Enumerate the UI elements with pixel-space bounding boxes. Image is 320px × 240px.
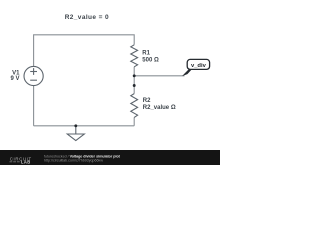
wire: node to v_div tag	[134, 75, 184, 77]
label V1	[12, 70, 20, 76]
wire: bottom rail	[34, 125, 135, 127]
value 500 Ω	[142, 57, 159, 63]
label R2	[143, 98, 151, 104]
wire: V1 bottom	[33, 86, 35, 126]
svg-text:500 Ω: 500 Ω	[142, 57, 159, 63]
annotation R2_value = 0	[65, 14, 109, 21]
svg-text:9 V: 9 V	[10, 76, 19, 82]
svg-text:R2: R2	[143, 98, 151, 104]
node tag v_div tail	[182, 69, 192, 76]
svg-text:LAB: LAB	[21, 159, 31, 164]
svg-text:R2_value Ω: R2_value Ω	[143, 105, 176, 111]
wire: R2 bottom lead	[133, 117, 135, 125]
svg-text:http://circuitlab.com/c/7hb93y: http://circuitlab.com/c/7hb93yqp66kw	[44, 158, 103, 162]
footer title line	[44, 155, 121, 159]
footer url line	[44, 158, 103, 162]
junction: R2 top	[133, 84, 136, 87]
ground	[67, 126, 84, 141]
junction: ground	[74, 124, 77, 127]
resistor R2	[131, 94, 138, 118]
junction: v_div node	[133, 74, 136, 77]
svg-text:R1: R1	[142, 51, 150, 57]
value 9 V	[10, 76, 19, 82]
svg-text:R2_value = 0: R2_value = 0	[65, 14, 109, 21]
wire: V1 top to R1 top	[34, 35, 135, 67]
footer bar	[0, 150, 220, 165]
value R2_value Ω	[143, 105, 176, 111]
resistor R1	[131, 45, 138, 67]
wire: R1 bottom to R2 top	[133, 67, 135, 94]
svg-text:v_div: v_div	[191, 63, 207, 69]
node tag v_div box	[187, 59, 209, 69]
footer logo LAB	[10, 159, 31, 164]
voltage source V1	[24, 66, 43, 85]
footer logo CIRCUIT	[10, 156, 32, 161]
label R1	[142, 51, 150, 57]
